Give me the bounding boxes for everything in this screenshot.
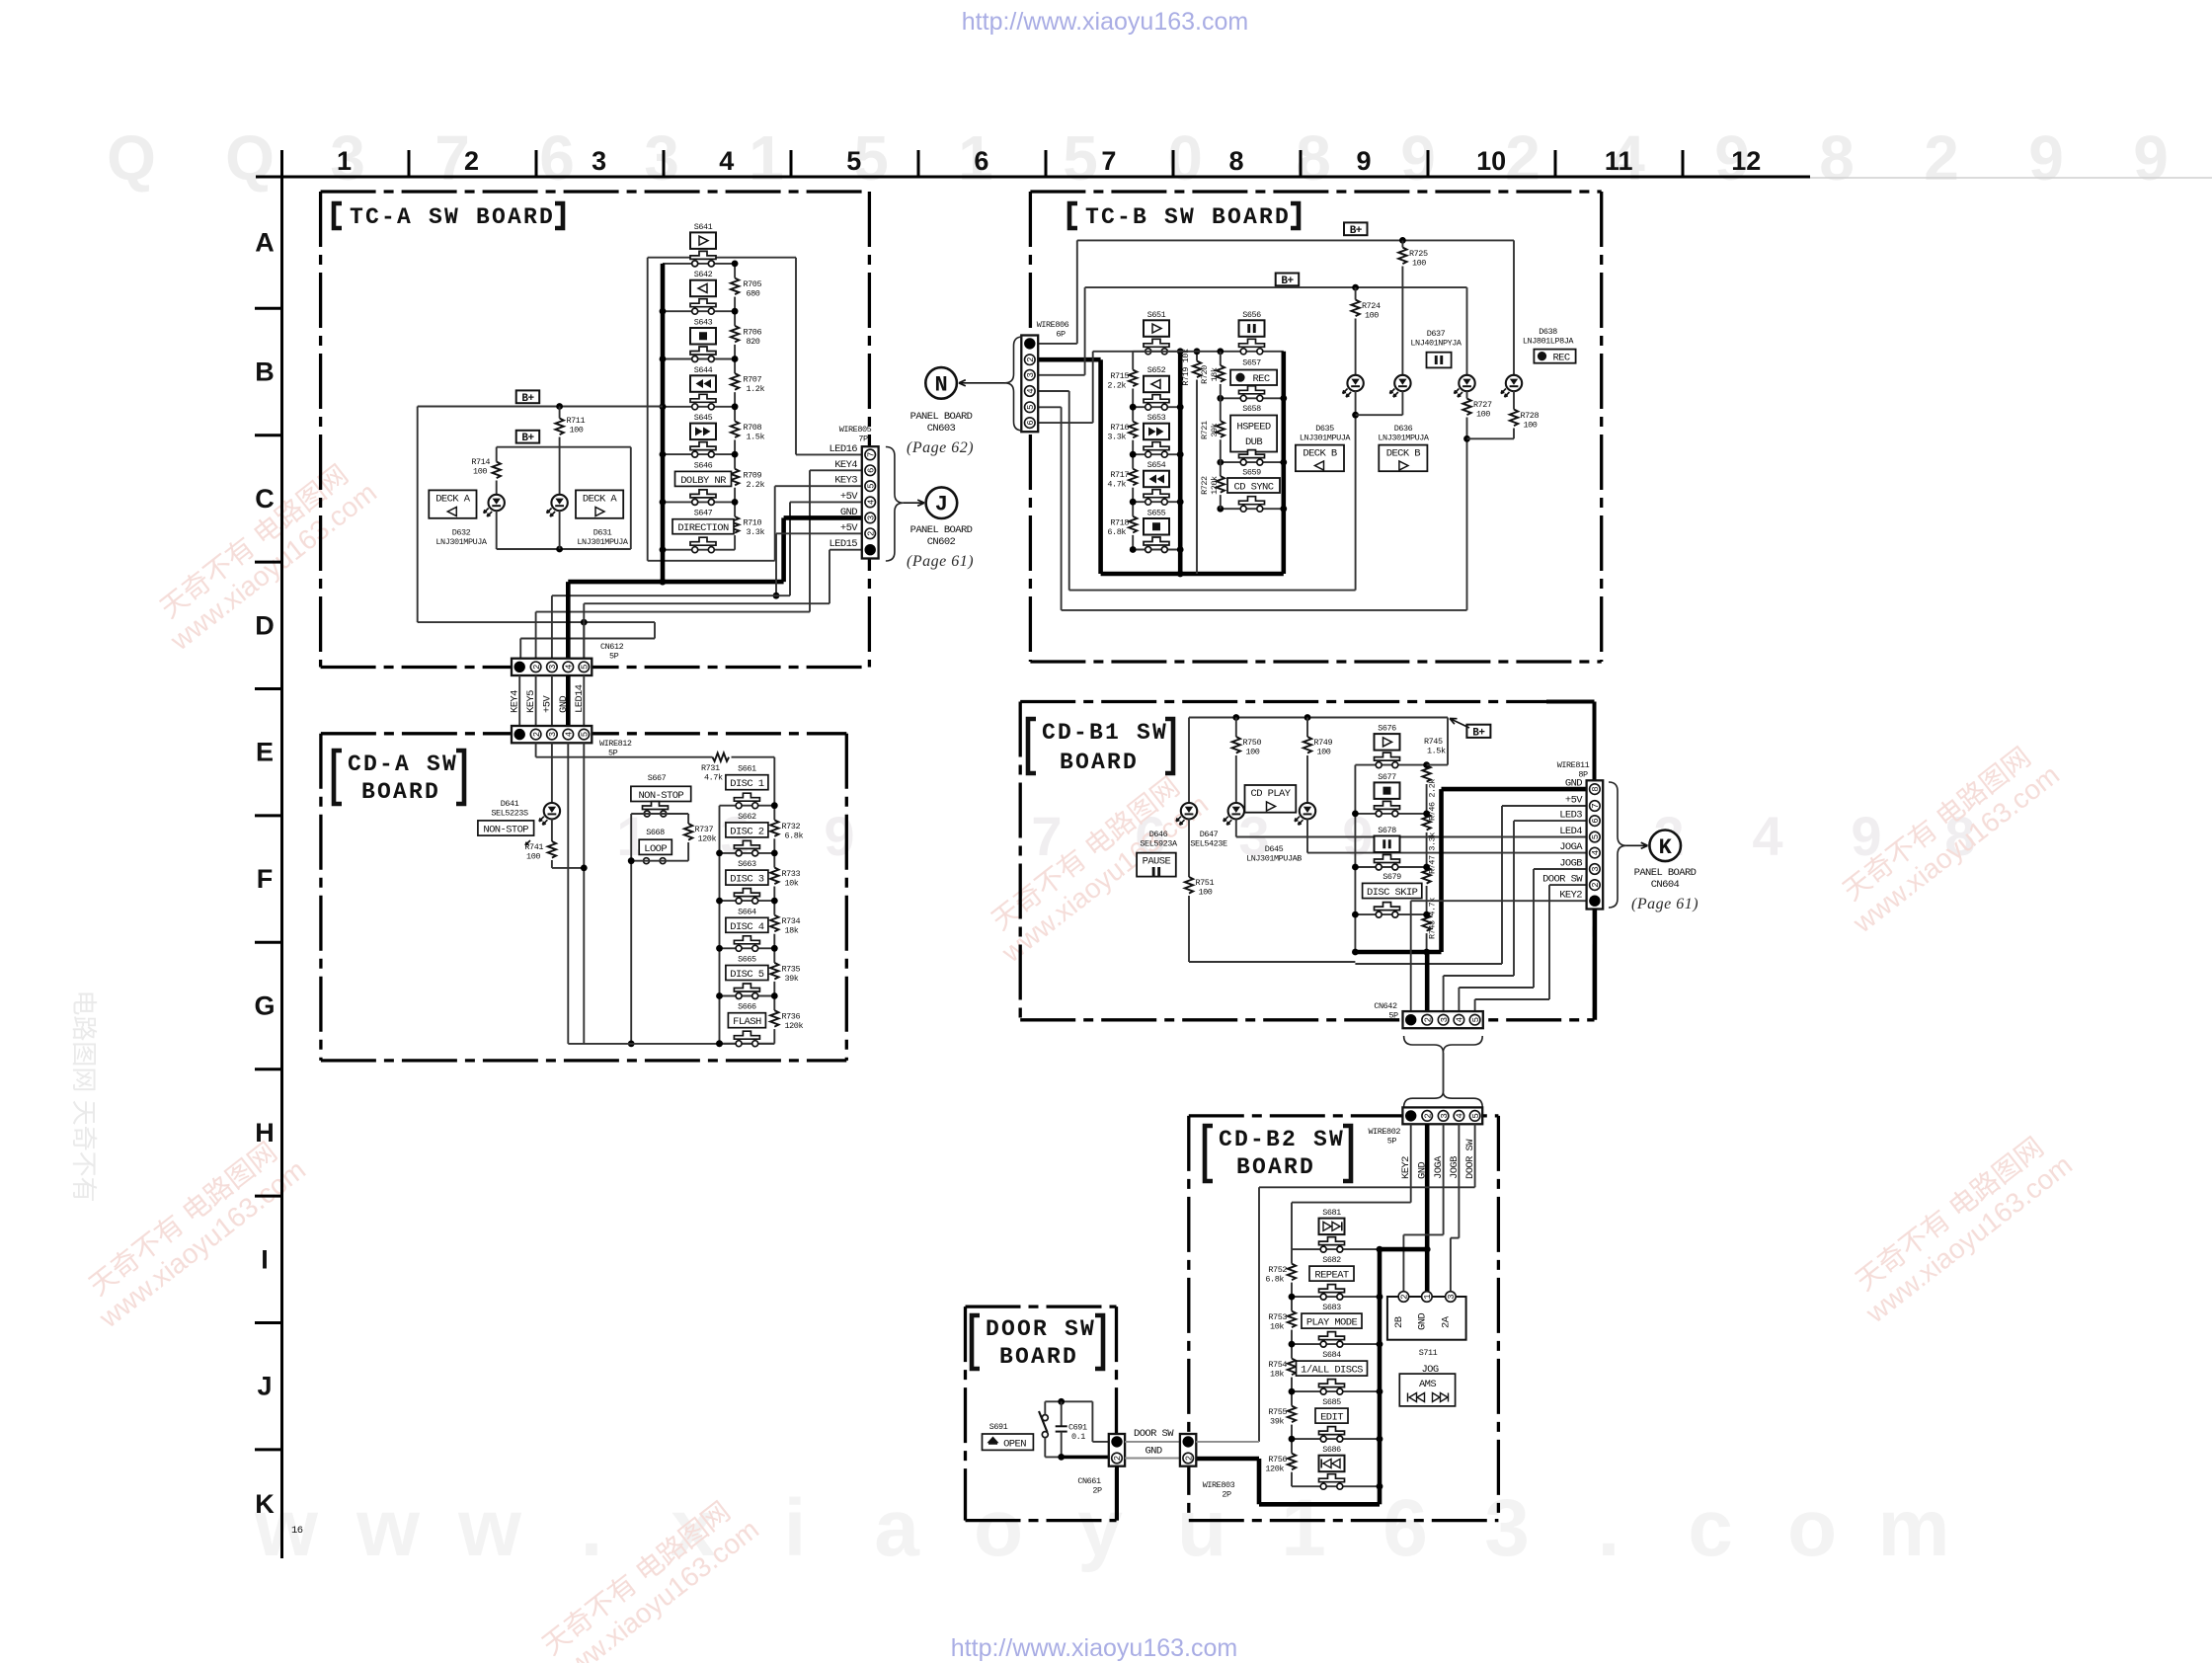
svg-text:2.2k: 2.2k [747,480,765,490]
wire KEY4 [810,469,862,471]
svg-text:S642: S642 [694,270,713,279]
svg-text:PLAY MODE: PLAY MODE [1306,1317,1358,1329]
svg-text:6: 6 [1026,420,1036,425]
PAUSE label box [1137,853,1176,877]
svg-text:12: 12 [1731,146,1761,176]
wire LED3 to CN642 pin3 [1514,820,1587,822]
svg-text:R751: R751 [1196,878,1215,888]
wire KEY2 right bus thick [1378,1249,1382,1486]
svg-text:NON-STOP: NON-STOP [483,825,528,836]
svg-text:http://www.xiaoyu163.com: http://www.xiaoyu163.com [951,1634,1237,1662]
svg-text:S652: S652 [1147,365,1166,375]
svg-text:DIRECTION: DIRECTION [677,522,729,534]
svg-text:R755: R755 [1268,1407,1287,1417]
resistor R732 6.8k [773,806,775,821]
svg-text:3.3k: 3.3k [1107,433,1126,442]
svg-text:820: 820 [747,337,760,347]
wire switch matrix rows [663,263,735,265]
svg-text:8: 8 [1591,786,1601,791]
svg-text:http://www.xiaoyu163.com: http://www.xiaoyu163.com [962,8,1248,36]
svg-text:w: w [355,1483,420,1573]
svg-text:LNJ801LP8JA: LNJ801LP8JA [1523,337,1575,347]
svg-text:5: 5 [1471,1017,1481,1022]
svg-text:3.3k: 3.3k [747,527,765,537]
svg-text:5: 5 [581,665,591,670]
resistor R755 39k [1291,1391,1293,1406]
wire KEY2 to CN642 pin1 [1411,900,1587,902]
svg-text:7: 7 [1101,146,1116,176]
svg-text:5P: 5P [609,652,619,662]
svg-text:SEL5923A: SEL5923A [1140,839,1178,849]
svg-text:GND: GND [558,696,570,713]
svg-text:DISC 2: DISC 2 [730,826,764,837]
wire inner LED loop [497,446,631,448]
svg-text:BOARD: BOARD [361,779,440,805]
svg-text:o: o [1787,1483,1837,1573]
wire JOGB to S711 pin3 [1458,1124,1460,1237]
svg-text:R706: R706 [744,327,762,337]
svg-text:3: 3 [592,146,606,176]
wire GND link thick [1380,1247,1427,1252]
svg-text:R748 4.7k: R748 4.7k [1428,898,1438,939]
svg-text:D631: D631 [593,528,612,538]
svg-text:KEY5: KEY5 [525,690,537,713]
resistor R724 100 [1355,287,1357,299]
svg-text:S659: S659 [1242,468,1261,478]
svg-text:9: 9 [1357,146,1372,176]
svg-text:2: 2 [532,665,542,670]
node J PANEL BOARD CN602 [926,487,958,518]
resistor R710 3.3k [734,502,736,516]
svg-text:LED15: LED15 [829,538,857,550]
rotary encoder S711 JOG [1387,1297,1466,1340]
svg-text:HSPEED: HSPEED [1236,422,1271,434]
svg-text:REC: REC [1552,352,1569,363]
svg-text:i: i [784,1483,807,1573]
svg-text:G: G [254,991,275,1021]
svg-text:7: 7 [1591,803,1601,808]
TC-B SW BOARD title [1069,203,1077,228]
wire +5V to LED D641 [551,743,553,803]
svg-text:C691: C691 [1068,1423,1087,1433]
svg-text:D645: D645 [1265,844,1284,854]
svg-text:DECK A: DECK A [435,494,471,506]
svg-text:CD-A SW: CD-A SW [348,752,458,777]
svg-text:100: 100 [1412,259,1426,269]
wire JOGA to S711 pin2 [1443,1124,1445,1234]
svg-text:D635: D635 [1315,424,1334,434]
wire WIRE806 pin1 riser to B+ [1038,343,1077,345]
resistor R705 680 [734,264,736,278]
svg-text:100: 100 [1524,421,1538,431]
svg-text:Q: Q [225,122,275,194]
svg-text:R722: R722 [1200,476,1210,495]
svg-text:CN642: CN642 [1374,1001,1397,1011]
wire +5V upper [790,501,862,503]
resistor R731 4.7k [713,753,730,761]
svg-text:8: 8 [1819,122,1855,194]
svg-text:DISC 1: DISC 1 [730,778,764,790]
svg-text:SEL5223S: SEL5223S [491,809,528,819]
svg-text:18k: 18k [1270,1370,1284,1380]
wire left column right bus thick [1178,352,1183,574]
svg-text:D: D [255,610,275,640]
svg-text:4: 4 [866,500,876,505]
svg-text:R728: R728 [1521,411,1540,421]
svg-text:.: . [1598,1483,1620,1573]
svg-text:1.2k: 1.2k [747,384,765,394]
svg-text:2: 2 [1113,1456,1123,1461]
svg-text:(Page 62): (Page 62) [907,439,974,456]
svg-text:5: 5 [1026,405,1036,410]
svg-text:100: 100 [526,852,540,862]
svg-text:D641: D641 [501,799,519,809]
wire DOOR SW to CN642 pin5 [1549,884,1587,886]
resistor R709 2.2k [734,454,736,469]
wire B+ rail to deck LEDs [418,406,663,408]
B+ net label 2 [516,431,540,443]
resistor R748 4.7k [1422,914,1430,931]
wire GND thick from WIRE811 pin8 [1442,787,1587,792]
svg-text:S655: S655 [1147,509,1166,518]
svg-text:D638: D638 [1539,327,1557,337]
svg-text:.: . [581,1483,603,1573]
resistor R717 4.7k [1132,454,1134,469]
wire B+ rail lower [1085,286,1467,288]
svg-text:LOOP: LOOP [644,843,667,855]
svg-text:B+: B+ [1281,276,1294,287]
resistor R725 100 [1401,240,1403,247]
svg-text:3: 3 [866,515,876,520]
AMS label box with skip icons [1399,1374,1455,1406]
svg-text:1: 1 [1281,1483,1326,1573]
svg-text:R753: R753 [1268,1312,1287,1322]
resistor R736 120k [773,996,775,1011]
junction dots left bus [660,308,667,315]
connector WIRE802 5P [1402,1107,1482,1124]
svg-text:R745: R745 [1424,737,1443,747]
svg-text:S641: S641 [694,222,713,232]
svg-text:FLASH: FLASH [733,1016,761,1028]
svg-text:9: 9 [2028,122,2064,194]
wire KEY3 [775,485,862,487]
resistor R737 120k [687,814,689,824]
svg-text:3: 3 [548,732,558,737]
svg-text:2: 2 [1184,1456,1194,1461]
resistor R746 2.2k [1422,814,1430,831]
svg-text:LED16: LED16 [829,443,857,455]
connector WIRE806 6P [1021,336,1038,433]
wire DOOR SW gray to riser [1196,1441,1259,1443]
resistor R756 120k [1291,1439,1293,1454]
cable bundle CN642 to WIRE802 [1404,1036,1483,1053]
B+ net label with arrow [1466,725,1490,738]
B+ net label 1 [1344,222,1368,235]
svg-text:J: J [935,493,948,517]
svg-text:CN603: CN603 [927,423,956,435]
svg-text:120k: 120k [1210,476,1220,495]
svg-text:D647: D647 [1200,830,1219,839]
svg-text:6: 6 [866,468,876,473]
svg-text:R709: R709 [744,470,762,480]
svg-text:EDIT: EDIT [1320,1412,1343,1424]
svg-text:R710: R710 [744,518,762,528]
svg-text:S683: S683 [1322,1303,1341,1312]
wire harness CN612 to WIRE812 with net names [518,675,520,726]
resistor R751 100 [1188,819,1190,877]
junction dots CD-B2 chain [1377,1246,1383,1253]
svg-text:DUB: DUB [1245,436,1262,448]
wire S676 chain rows [1355,764,1426,766]
resistor R716 3.3k [1132,407,1134,422]
DOOR SW BOARD border [966,1305,1117,1307]
svg-text:+5V: +5V [1565,795,1583,807]
svg-text:WIRE811: WIRE811 [1557,760,1590,770]
svg-text:R737: R737 [695,825,714,834]
svg-text:R734: R734 [782,916,801,926]
svg-text:S684: S684 [1322,1350,1341,1360]
CD-B1 SW BOARD border [1020,700,1594,703]
NON-STOP label box for D641 [478,821,534,835]
CD PLAY label box [1245,785,1297,813]
resistor R752 6.8k [1291,1249,1293,1264]
svg-text:R736: R736 [782,1012,801,1022]
svg-text:D632: D632 [452,528,471,538]
svg-text:WIRE805: WIRE805 [839,425,872,435]
svg-text:K: K [1659,835,1673,860]
svg-text:2A: 2A [1440,1315,1452,1328]
svg-text:R749: R749 [1314,738,1333,748]
svg-text:N: N [934,372,947,397]
svg-text:6.8k: 6.8k [785,831,804,840]
svg-text:R717: R717 [1110,470,1129,480]
svg-text:F: F [257,864,274,894]
wire DOOR SW long route [1474,1124,1476,1187]
svg-text:DECK B: DECK B [1303,448,1337,460]
resistor R733 10k [773,853,775,868]
wire WIRE806 pin4 to deck LEDs [1038,390,1069,392]
CD-A SW BOARD border [321,732,846,735]
wire DOOR SW net to CN661 pin1 [1091,1401,1093,1442]
svg-text:E: E [256,738,274,767]
resistor R728 100 [1513,391,1515,410]
svg-text:2B: 2B [1393,1316,1405,1328]
svg-text:LED3: LED3 [1559,810,1582,822]
svg-text:8P: 8P [1578,770,1588,780]
svg-text:R752: R752 [1268,1265,1287,1275]
svg-text:LNJ301MPUJA: LNJ301MPUJA [577,537,629,547]
wire WIRE806 pin2 GND thick [1038,357,1100,362]
svg-text:S667: S667 [648,773,667,783]
svg-text:LED14: LED14 [574,684,586,713]
svg-text:DISC 4: DISC 4 [730,921,764,933]
svg-text:B: B [255,357,275,387]
resistor R750 100 [1235,718,1237,738]
resistor R734 18k [773,901,775,915]
svg-text:BOARD: BOARD [1236,1154,1315,1180]
wire +5V lower [776,532,862,534]
svg-text:JOGB: JOGB [1559,858,1582,870]
connector WIRE803 2P [1180,1434,1196,1466]
svg-text:8: 8 [1228,146,1243,176]
svg-text:+5V: +5V [541,695,553,713]
junction dots CD-A chain [716,850,723,857]
svg-text:4.7k: 4.7k [1107,480,1126,490]
svg-text:R724: R724 [1362,301,1381,311]
svg-text:CD-B1 SW: CD-B1 SW [1042,720,1168,746]
svg-text:18k: 18k [1210,367,1220,381]
wire DOOR SW between connectors [1125,1441,1180,1443]
svg-text:2: 2 [1423,1113,1433,1118]
svg-text:4: 4 [565,665,575,670]
svg-text:3: 3 [1447,1294,1457,1299]
junction dots resistor chain [1423,761,1430,768]
connector WIRE805 7P [862,446,879,558]
svg-text:3: 3 [1484,1483,1530,1573]
svg-text:1/ALL DISCS: 1/ALL DISCS [1301,1365,1363,1377]
wire KEY5 to switch chain [535,743,537,756]
svg-text:I: I [261,1244,269,1274]
resistor R753 10k [1291,1297,1293,1311]
svg-text:2: 2 [464,146,479,176]
wire GND thick to S711 [1425,1124,1430,1297]
svg-text:7: 7 [866,452,876,457]
svg-text:DOLBY NR: DOLBY NR [680,475,727,487]
DOOR SW BOARD title [972,1315,980,1369]
node K PANEL BOARD CN604 [1649,831,1681,862]
svg-text:5: 5 [846,146,861,176]
resistor R719 10k [1196,352,1198,361]
wire S667 row [631,813,688,815]
svg-text:S676: S676 [1378,724,1396,734]
cable brace WIRE811 [1609,782,1626,908]
svg-text:R732: R732 [782,822,801,831]
svg-text:D637: D637 [1427,329,1446,339]
wire row1 to B+ riser [1427,764,1448,766]
svg-text:4: 4 [1456,1017,1465,1022]
svg-text:R727: R727 [1473,400,1492,410]
svg-text:REPEAT: REPEAT [1314,1270,1349,1282]
svg-text:680: 680 [747,289,760,299]
svg-text:DOOR SW: DOOR SW [1542,874,1583,886]
resistor R741 100 [551,819,553,841]
svg-text:4.7k: 4.7k [704,773,723,783]
svg-text:4: 4 [1026,388,1036,393]
svg-text:3: 3 [644,122,679,194]
svg-text:DISC 5: DISC 5 [730,969,764,981]
svg-text:S668: S668 [646,828,665,837]
wire LED16 to WIRE805 pin7 [796,453,862,455]
wire chain left bus [1354,765,1356,952]
svg-text:39k: 39k [1270,1417,1284,1427]
svg-text:CN661: CN661 [1077,1476,1101,1486]
resistor R720 18k [1220,352,1222,365]
svg-text:S646: S646 [694,460,713,470]
svg-text:R714: R714 [471,457,490,467]
wire door switch bottom GND [1044,1438,1046,1458]
resistor R754 18k [1291,1344,1293,1359]
LED D645 [1300,803,1315,819]
arrow to node J [904,502,924,504]
svg-text:GND: GND [840,507,857,518]
svg-text:R731: R731 [701,763,720,773]
svg-text:S651: S651 [1147,310,1166,320]
svg-text:S661: S661 [738,764,756,774]
wire WIRE806 pin6 to switch common [1038,422,1093,424]
svg-text:1: 1 [337,146,352,176]
DECK A reverse label box [429,490,476,517]
svg-text:5: 5 [1591,834,1601,839]
svg-text:WIRE802: WIRE802 [1368,1127,1400,1137]
svg-text:NON-STOP: NON-STOP [638,790,683,802]
wire S668 row [631,860,688,862]
svg-text:6.8k: 6.8k [1265,1275,1284,1285]
svg-text:H: H [255,1118,275,1148]
svg-text:3: 3 [1440,1017,1450,1022]
watermark pink diagonal stamps [144,451,382,656]
wire top row span [1133,351,1284,353]
wire GND thick route to CN612 [784,515,862,520]
svg-text:4: 4 [719,146,734,176]
resistor R727 100 [1466,391,1468,399]
resistor R749 100 [1306,718,1308,738]
svg-text:6P: 6P [1056,330,1066,340]
svg-text:120k: 120k [1265,1465,1284,1474]
grid row ruler line [280,150,283,1558]
LED D646 [1188,718,1190,804]
svg-text:LNJ401NPYJA: LNJ401NPYJA [1410,339,1462,349]
svg-text:4: 4 [565,732,575,737]
TC-A SW BOARD title [334,203,342,228]
svg-text:2: 2 [866,531,876,536]
svg-text:GND: GND [1416,1313,1428,1330]
svg-text:3: 3 [1440,1113,1450,1118]
svg-text:4: 4 [1752,805,1782,867]
svg-text:S657: S657 [1242,358,1261,368]
svg-text:2P: 2P [1222,1490,1231,1500]
LED D647 [1228,803,1244,819]
junction dots TC-B left column [1130,404,1137,411]
svg-text:C: C [255,484,275,514]
svg-text:D636: D636 [1394,424,1413,434]
svg-text:R735: R735 [782,964,801,974]
svg-text:R718: R718 [1110,517,1129,527]
B+ net label 2 [1276,274,1300,286]
arrow to node K [1626,844,1648,846]
wire feeders to CN612 [519,639,521,659]
svg-text:R707: R707 [744,375,762,385]
svg-text:S686: S686 [1322,1445,1341,1455]
svg-text:R756: R756 [1268,1455,1287,1465]
svg-text:120k: 120k [698,834,717,844]
svg-text:AMS: AMS [1419,1379,1436,1390]
svg-text:S666: S666 [738,1002,756,1012]
svg-text:CD-B2 SW: CD-B2 SW [1219,1127,1345,1152]
svg-text:5: 5 [866,483,876,488]
connector CN661 2P [1109,1434,1125,1466]
svg-text:39k: 39k [1210,423,1220,436]
svg-text:D646: D646 [1149,830,1168,839]
resistor R711 100 [559,407,561,419]
svg-text:a: a [874,1483,920,1573]
svg-text:4: 4 [1456,1113,1465,1118]
svg-text:3: 3 [1026,372,1036,377]
svg-text:R708: R708 [744,423,762,433]
svg-text:7P: 7P [858,435,868,444]
svg-text:R721: R721 [1200,421,1210,439]
svg-text:39k: 39k [785,974,799,984]
svg-text:S691: S691 [989,1422,1008,1432]
